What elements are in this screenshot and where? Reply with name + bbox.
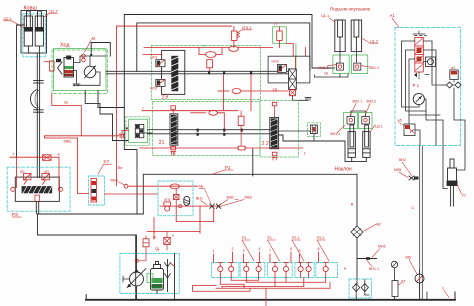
check valve ОК3 [232,89,241,94]
SECTION: hod [44,36,108,94]
lock ЗМ2.1 group [344,113,358,129]
group box 2Э [151,46,260,100]
solenoid 2Э upper [156,60,165,67]
solenoid 1В [277,64,286,72]
svg-text:8: 8 [318,247,320,251]
tank symbol [73,84,80,86]
throttle Д1 group [308,123,321,137]
SECTION: rightcol [344,146,466,300]
pedal box 1 [211,263,238,278]
svg-text:Т: Т [13,153,15,157]
svg-text:Р 1: Р 1 [413,83,420,88]
svg-text:ВН1.1: ВН1.1 [369,267,379,271]
pedal box 4 [295,263,314,278]
svg-text:КП1.1: КП1.1 [242,26,252,30]
check valve oval [170,184,179,189]
wire outer top feed [124,15,334,215]
plug МВ3 X [210,204,214,208]
tilt cylinder Ц3.1 [348,125,355,157]
wire tank container down [157,254,175,300]
wire Д1 down [313,134,315,142]
pedal box 2 [240,263,265,278]
wire pump down [136,286,138,300]
svg-text:ЗМ2.2: ЗМ2.2 [366,100,376,104]
wire МВ down [419,283,421,300]
svg-text:Ц2.1: Ц2.1 [4,17,12,21]
check valve oval [209,110,218,115]
regulator column [415,38,424,73]
wire red long y148 [140,147,303,149]
aux valve ж5 [404,124,415,136]
SECTION: rednet [143,23,306,72]
directional valve 22 body [270,117,279,148]
wire red pilot into 1В [294,56,296,69]
svg-text:ЗМ1.1: ЗМ1.1 [330,132,340,136]
relief valve КП2 [238,116,244,125]
SECTION: naklon [335,125,383,173]
SECTION: valve1v [268,56,348,101]
cylinder У1 right [447,159,457,206]
wire red top kp11 link [117,25,232,27]
wire 22 lower to tilt [279,135,345,141]
main double riser to swing block [36,53,38,178]
tank symbol red [119,134,124,138]
swing spool hatched [22,186,53,193]
SECTION: p7 [45,138,211,205]
svg-text:НО1: НО1 [150,56,157,60]
svg-text:1: 1 [304,152,306,156]
valve 22 spool hatched [271,118,278,147]
wire red feed lines [147,231,200,233]
svg-text:2: 2 [232,247,234,251]
tank mark left [56,59,61,62]
pedal valves [218,263,329,278]
tank bottom line [86,299,455,301]
svg-text:АБ: АБ [199,185,204,189]
connector ticks [34,80,44,82]
wire red МН1 bus [128,185,198,187]
aux valve ж4 [450,70,458,80]
svg-text:п: п [172,234,174,238]
svg-text:Ход: Ход [60,43,70,49]
pilot cap valve 21 top [171,106,176,110]
reducing valve [174,195,180,200]
svg-text:Р2.2: Р2.2 [317,236,324,240]
svg-text:Р1: Р1 [242,236,246,240]
pilot pump cell [426,57,436,67]
compensator КП1 [164,202,171,206]
pilot cap valve 22 bottom [272,152,277,156]
svg-text:МН6: МН6 [378,245,386,249]
svg-text:В: В [351,203,354,207]
svg-text:Ц1.2: Ц1.2 [370,40,378,44]
tilt cylinder Ц3.2 [363,125,370,157]
wire motor line A step [85,91,128,141]
check valve ОК2 oval [206,52,216,58]
rotary joint circles [82,54,86,58]
wire red МП2 tank [122,131,129,134]
lock ЗМ1.2 group [352,55,368,74]
pedal box 3 [268,263,293,278]
pump unit cyan box [120,254,179,294]
node dots pair2 [197,129,199,132]
svg-text:21: 21 [159,140,165,146]
svg-text:РЗ: РЗ [12,212,18,217]
svg-text:Вн: Вн [118,166,122,170]
red pilot Т-В line [10,157,59,188]
port right red [58,187,63,191]
svg-text:Р1: Р1 [225,165,231,170]
wire 1В to tank [293,96,309,101]
pilot cap valve 21 bottom [171,146,176,150]
lift valve frame [268,56,310,83]
brake cylinder [64,56,74,78]
damper tube [392,281,398,297]
riser wires to valves [214,252,319,263]
wire motor to top [90,43,92,55]
pump control cyan box [158,181,193,216]
wire strainers [356,279,369,300]
svg-text:КП1: КП1 [165,198,171,202]
swing block cyan box [7,167,70,211]
main pump [130,272,144,286]
tank return left leg [38,174,144,214]
directional valve 2Э body [162,50,185,94]
SECTION: a1box [390,13,466,149]
node dots pair1 [208,71,210,74]
throttle ТГ group [273,27,287,44]
tee МН6 [357,258,377,260]
accumulator [184,197,190,206]
lock ЗМ1.1 group [333,55,349,74]
port left red [11,187,16,191]
bucket cylinder group frame [21,11,47,54]
lift cylinder Ц1.2 [351,20,361,52]
group box 22 [260,101,299,158]
wire red 221 loop [176,206,214,222]
brake release lever [58,62,63,74]
red pilot inlet component [50,61,55,71]
steering valve column [91,179,97,203]
svg-text:КП: КП [45,170,50,174]
SECTION: pumpunit [120,218,200,300]
svg-text:КП: КП [20,170,25,174]
tank return top edge [143,173,357,175]
lift cylinder Ц1.1 [335,20,345,52]
SECTION: pumpctl [158,181,252,233]
aux relief valve [164,238,170,245]
node МП2 inlet [126,127,128,129]
svg-text:Ц1.1: Ц1.1 [321,14,329,18]
SECTION: valverow [193,236,338,306]
swing spool center detail [35,195,40,201]
svg-text:Ц3.1: Ц3.1 [375,125,383,129]
cylinder Ц2.1 [24,11,32,46]
svg-text:С: С [412,206,415,210]
svg-text:ж4: ж4 [451,66,455,70]
SECTION: valve21 [140,75,306,156]
svg-text:У1: У1 [462,194,467,198]
needle valve on С [409,176,414,180]
wire x427 drop [426,292,428,300]
drain line arrows [167,260,169,292]
svg-text:Р1: Р1 [268,236,272,240]
charge pump circle [413,93,424,104]
wire green pilot drop [295,44,297,69]
wire МП2 out right [144,132,153,134]
wire А1 bottom links [426,111,436,146]
gauge point МН1 [124,184,128,188]
svg-text:МВ2: МВ2 [64,140,72,144]
cylinder Ц2.2 [35,11,43,46]
svg-text:6: 6 [290,247,292,251]
wire red mid bus [144,47,229,49]
wire 1В feed to locks [314,74,348,77]
pilot valve МП2 group [126,117,150,146]
svg-text:НО3: НО3 [272,60,279,64]
thermometer МВ [415,274,424,283]
wire red pilot bus y206 [160,205,220,207]
wire 22 to Д1 [279,130,311,132]
svg-text:МН5: МН5 [394,168,401,172]
relief valve small [207,60,213,68]
wire hod top link [91,43,110,57]
svg-text:2Э: 2Э [162,95,169,101]
internal wires [74,56,107,63]
wire red down from bus [199,206,201,233]
SECTION: podem [319,7,380,74]
red tick [171,264,175,267]
wires ж5 [409,115,420,146]
wire red drain 2и [52,94,119,136]
digits [213,247,320,253]
lock ЗМ2.2 group [359,113,373,129]
left red links [193,286,251,292]
svg-text:ДТ: ДТ [401,280,406,284]
hose loop [30,90,37,109]
charge pump tank [151,262,164,291]
strainer diamond 1 [353,284,360,292]
svg-text:4: 4 [259,247,261,251]
relief valve КП right [42,174,50,185]
wire cyl bottoms to main riser [28,46,37,53]
wire column to pump [418,72,420,80]
svg-text:МВ3: МВ3 [245,196,252,200]
travel group green box [54,49,107,91]
svg-text:МВ2: МВ2 [227,196,234,200]
wire locks feed [351,111,366,117]
wire red МВ2 drop [45,138,89,194]
svg-text:3: 3 [243,249,245,253]
svg-text:Р2.1: Р2.1 [292,236,299,240]
wire pump shaft [123,276,130,282]
wire red past Р7 [105,193,159,195]
valve 2Э spool hatched [171,56,178,91]
check diamonds pair [447,82,462,88]
swing block outlet double [35,201,37,214]
red box on line y148 [238,146,245,150]
wire red mid band [218,90,229,92]
lift valve 1В body [289,69,297,90]
motor loop wires [74,72,100,85]
riser from valve block [252,149,254,176]
filter Ф1 red [143,239,149,247]
svg-text:1В: 1В [272,88,277,93]
wire inner top feed [137,23,310,71]
pedal box 5 [316,263,338,278]
svg-text:А2: А2 [377,223,382,227]
wire red branch y54 [143,54,162,56]
plug МВ2 X [216,204,220,208]
filter А2 diamond [351,226,363,238]
bucket cylinder group cyan box [23,14,46,57]
svg-text:Р7: Р7 [104,160,110,165]
valve 21 spool hatched [171,115,177,144]
group box 21 [153,102,261,156]
relief valve КП left [23,174,31,185]
manifold wires [193,278,331,306]
svg-text:ЗМ2.1: ЗМ2.1 [352,100,362,104]
directional valve 21 body [170,114,178,145]
nested loop wires [402,41,441,120]
svg-text:в: в [344,267,346,271]
svg-text:2и: 2и [64,101,68,105]
check valve ОК1 [229,46,239,51]
svg-text:ВН1: ВН1 [196,197,203,201]
SECTION: valve22 [260,100,376,161]
svg-text:Подъем-опускание: Подъем-опускание [330,7,371,12]
SECTION: rz [7,153,70,218]
wire red drain to МВ2 [45,136,82,138]
wire У1 links [443,149,448,189]
svg-text:МВ: МВ [406,256,412,260]
pilot cap 1В bottom [290,90,296,96]
svg-text:ЗМ1.2: ЗМ1.2 [369,66,379,70]
wire red x251 drop [250,75,252,111]
suction strainer box [349,279,372,298]
main line pair upper [106,70,288,72]
small green box [147,274,153,283]
solenoid 2Э lower [156,79,165,86]
tank symbol [305,98,311,101]
svg-text:7: 7 [269,249,271,253]
svg-text:НО2: НО2 [150,86,157,90]
travel motor М [84,66,96,78]
wire В line below filter [356,238,358,279]
SECTION: enclosure [38,149,456,300]
svg-text:2 2: 2 2 [262,141,269,147]
pilot column top symbol [413,31,427,36]
wire motor line B step [98,91,124,108]
svg-text:ГЗ: ГЗ [155,247,159,251]
SECTION: topfeed [45,15,335,215]
drain line С double [419,146,421,300]
relief valve КП1.1 [232,31,238,41]
svg-text:кп: кп [153,236,156,240]
power unit А1 cyan box [395,28,461,146]
SECTION: kovsh [4,6,58,178]
svg-text:ЗМ1.1: ЗМ1.1 [319,66,329,70]
wire tilt bottoms [345,141,366,162]
suction line lower [38,214,136,300]
svg-text:ВН2: ВН2 [399,158,406,162]
wire cyl1 rod port to left drop [17,25,25,157]
wire pilot red top [117,26,232,186]
pilot valve МП2 body [135,124,144,137]
svg-text:ТГ: ТГ [274,23,278,27]
wire red x223 drop [223,75,225,110]
svg-text:Наклон: Наклон [335,167,352,173]
svg-text:М: М [92,36,96,41]
main line pair lower [148,129,271,131]
wire red г line [142,110,238,112]
svg-text:А1: А1 [390,13,396,18]
wire red right drop [286,44,293,57]
steering valve Р7 cyan box [89,176,105,205]
pilot cap valve 22 top [272,102,277,106]
pump variable arrow [127,269,146,288]
svg-text:ж5: ж5 [398,119,402,123]
strainer diamond 2 [361,284,368,292]
junction node [90,54,92,56]
swing valve frame [15,177,59,201]
labels with leaders [242,236,324,240]
SECTION: valve2e [106,46,288,101]
svg-text:1: 1 [442,287,444,291]
svg-text:1: 1 [213,249,215,253]
red node [135,259,138,262]
МВ2 valve red box [43,155,52,161]
gauge МН2 circle slash [391,261,397,267]
svg-text:МН1: МН1 [111,179,119,183]
return line В vertical [356,174,358,226]
wire red y112.8 [191,112,206,114]
